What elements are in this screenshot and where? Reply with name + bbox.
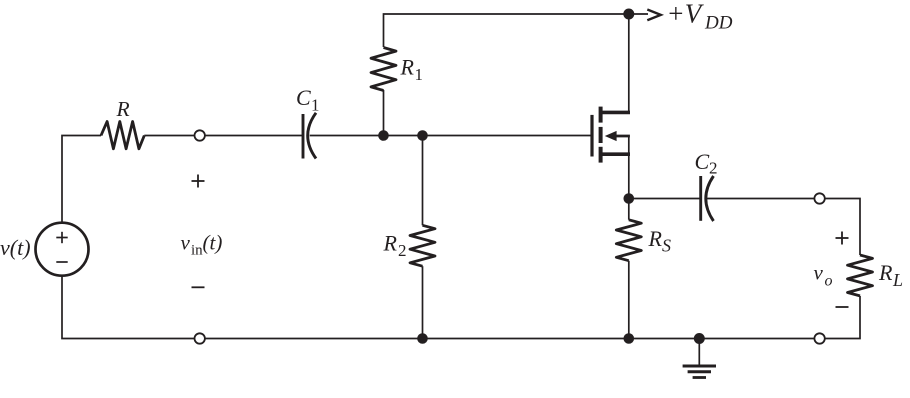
- voltage source minus sign: [56, 261, 67, 263]
- transistor M1 channel segment top: [599, 107, 603, 123]
- transistor M1 channel segment middle: [599, 127, 603, 143]
- voltage source plus sign: [56, 232, 67, 243]
- wire RL bottom lead: [825, 296, 861, 339]
- voltage source v(t) circle: [36, 223, 89, 276]
- wire drain to VDD: [628, 14, 630, 112]
- capacitor C1: [303, 113, 316, 159]
- svg-text:C: C: [296, 85, 311, 110]
- svg-text:DD: DD: [704, 13, 733, 34]
- svg-text:1: 1: [311, 96, 320, 115]
- wire C2 to output node circle: [707, 198, 815, 200]
- junction dot node G1: [378, 130, 389, 141]
- transistor M1 source stub: [601, 152, 630, 156]
- junction dot ground node: [694, 333, 705, 344]
- transistor M1 gate bar: [590, 115, 593, 157]
- svg-text:C: C: [695, 149, 710, 174]
- svg-text:2: 2: [709, 159, 718, 178]
- wire bottom rail: [205, 338, 815, 340]
- wire R to input node: [144, 135, 195, 137]
- svg-text:R: R: [648, 226, 663, 251]
- wire source/body down to output node: [628, 136, 630, 220]
- node open circle output bottom: [814, 333, 824, 343]
- ground: [683, 339, 716, 378]
- wire left rail top (x=62, y135.5 to source top): [62, 136, 101, 223]
- resistor R: [101, 122, 144, 149]
- minus sign vo: [836, 306, 849, 308]
- resistor R2: [410, 225, 435, 266]
- minus sign vin: [192, 286, 205, 288]
- transistor M1 body arrowhead: [605, 131, 617, 141]
- svg-text:1: 1: [415, 65, 424, 84]
- wire input node to C1: [205, 135, 303, 137]
- arrowhead +VDD supply: [647, 10, 661, 21]
- resistor R1: [371, 48, 396, 91]
- wire source node to C2: [629, 198, 701, 200]
- wire output node to right rail: [825, 199, 861, 256]
- svg-text:+V: +V: [667, 0, 705, 29]
- svg-text:v(t): v(t): [0, 235, 31, 260]
- wire RS bottom lead: [628, 261, 630, 339]
- node open circle input bottom: [195, 333, 205, 343]
- plus sign vin: [192, 175, 205, 188]
- wire R2 top lead: [422, 136, 424, 226]
- svg-text:v: v: [814, 261, 824, 285]
- svg-text:in: in: [191, 243, 203, 259]
- wire R1 bottom lead: [383, 90, 385, 136]
- svg-text:R: R: [400, 55, 415, 80]
- svg-text:R: R: [878, 260, 893, 285]
- svg-text:v: v: [181, 231, 191, 255]
- junction dot R2 bottom: [417, 333, 428, 344]
- transistor M1 channel segment bottom: [599, 147, 603, 163]
- wire R2 bottom lead: [422, 266, 424, 338]
- junction dot source node: [624, 193, 635, 204]
- svg-text:o: o: [825, 273, 833, 290]
- svg-text:(t): (t): [203, 231, 223, 255]
- junction dot node G2: [417, 130, 428, 141]
- transistor M1 body lead: [612, 135, 630, 138]
- svg-text:R: R: [383, 231, 398, 256]
- svg-text:S: S: [662, 236, 671, 256]
- svg-text:L: L: [892, 270, 903, 290]
- svg-text:2: 2: [398, 241, 407, 260]
- wire C1 to gate (through junctions): [310, 135, 591, 137]
- transistor M1 drain stub: [601, 111, 630, 115]
- node open circle input top: [195, 130, 205, 140]
- wire left rail bottom (source bottom to bottom rail): [62, 276, 195, 339]
- wire R1 top lead to VDD rail: [384, 14, 649, 47]
- svg-text:R: R: [116, 97, 130, 121]
- plus sign vo: [836, 232, 849, 245]
- junction dot VDD node: [623, 9, 634, 20]
- resistor RL: [848, 255, 873, 296]
- node open circle output top: [814, 193, 824, 203]
- capacitor C2: [701, 176, 714, 221]
- resistor RS: [616, 220, 641, 261]
- junction dot RS bottom: [624, 333, 635, 344]
